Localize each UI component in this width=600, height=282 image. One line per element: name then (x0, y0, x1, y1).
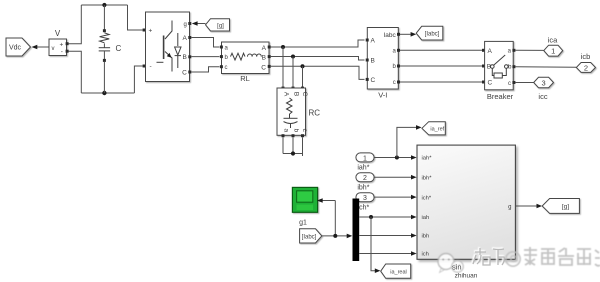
svg-text:ica: ica (548, 35, 558, 44)
inport 1 (356, 153, 374, 162)
node tap C (301, 64, 305, 68)
svg-text:ibh: ibh (422, 234, 430, 240)
svg-text:RC: RC (309, 109, 321, 118)
diode symbol inside bridge (175, 33, 181, 68)
wire subsystem g to tag [g] (516, 204, 542, 209)
svg-text:V-I: V-I (378, 91, 387, 100)
port a of Breaker (512, 49, 515, 52)
wire demux out1 to subsystem iah (359, 215, 416, 220)
switch symbol inside breaker (491, 55, 509, 78)
svg-text:iah*: iah* (422, 156, 433, 162)
svg-text:Breaker: Breaker (487, 92, 514, 101)
svg-text:ich: ich (422, 252, 429, 258)
scope g1 (292, 187, 317, 212)
port a of RL (220, 46, 223, 49)
svg-text:2: 2 (363, 175, 367, 182)
wire star point (283, 153, 303, 155)
port A of Breaker (482, 49, 485, 52)
svg-text:-: - (61, 49, 63, 56)
svg-text:c: c (393, 80, 396, 86)
port B of RL (268, 55, 271, 58)
watermark wechat logo (438, 254, 463, 273)
wire inport2 to subsystem ibh* (374, 175, 416, 180)
svg-text:C: C (116, 44, 122, 53)
wire bottom rail to bridge - (134, 66, 142, 93)
port b of Breaker (512, 65, 515, 68)
wire tap B down to RC (292, 57, 294, 88)
outport 3 (534, 77, 554, 87)
capacitor C branch (99, 5, 122, 93)
svg-text:1: 1 (551, 47, 555, 56)
wire top rail to bridge + (128, 5, 143, 30)
wire from tag [g] to bridge g (192, 21, 206, 26)
wire demux out2 to subsystem ibh (359, 233, 416, 238)
svg-text:A: A (283, 92, 290, 97)
port - of bridge (143, 65, 146, 68)
svg-text:V: V (55, 29, 61, 38)
svg-text:g1: g1 (299, 220, 307, 227)
resistor symbol inside RC (287, 98, 293, 114)
from tag [Iabc] bottom (300, 229, 322, 243)
goto tag ia_ref (422, 122, 445, 135)
V-I measurement block (367, 28, 398, 100)
wire bridge C to RL c (191, 67, 219, 72)
port b of V-I (397, 65, 400, 68)
port + of bridge (143, 29, 146, 32)
svg-text:RL: RL (240, 74, 250, 83)
wire inport1 to subsystem iah* (374, 155, 416, 160)
svg-text:-: - (150, 63, 152, 70)
svg-text:C: C (301, 92, 308, 97)
svg-text:A: A (371, 37, 376, 44)
wire Breaker b to outport 2 (515, 66, 576, 69)
node tap B (291, 55, 295, 59)
port Iabc of V-I (397, 33, 400, 36)
wire V+ to top rail (69, 5, 82, 44)
port A of RL (268, 46, 271, 49)
port B of V-I (366, 59, 369, 62)
svg-text:[Iabc]: [Iabc] (425, 32, 440, 38)
wire bridge A to RL a (191, 38, 219, 48)
goto tag [Iabc] top (416, 26, 443, 40)
port C of V-I (366, 78, 369, 81)
svg-text:b: b (292, 128, 299, 132)
svg-text:A: A (262, 45, 267, 52)
svg-text:sin: sin (452, 263, 462, 272)
wire RL C to V-I C (271, 66, 365, 79)
wire demux out3 to subsystem ich (359, 251, 416, 256)
watermark at sign (506, 252, 520, 266)
inport 3 (356, 193, 374, 202)
svg-text:Iabc: Iabc (384, 32, 397, 39)
svg-text:c: c (225, 65, 228, 71)
port + of V (66, 42, 69, 45)
node branch ia_ref (395, 156, 399, 160)
svg-text:2: 2 (584, 63, 588, 72)
port A of RC (282, 87, 285, 90)
svg-text:[g]: [g] (562, 204, 569, 211)
port A of V-I (366, 39, 369, 42)
wire tap A down to RC (282, 47, 284, 88)
svg-text:a: a (283, 128, 290, 132)
svg-text:ia_ref: ia_ref (430, 127, 444, 133)
svg-text:+: + (149, 28, 153, 35)
wire inport3 to subsystem ich* (374, 195, 416, 200)
wire Breaker a to outport 1 (515, 49, 543, 51)
port B of bridge (188, 55, 191, 58)
capacitor symbol inside RC (284, 114, 298, 128)
svg-text:B: B (371, 58, 375, 65)
svg-text:icb: icb (581, 52, 591, 61)
svg-text:B: B (292, 92, 299, 96)
goto tag ia_real (381, 264, 411, 278)
node tap A (281, 45, 285, 49)
svg-text:+: + (60, 42, 64, 49)
voltage measurement V (49, 29, 67, 56)
port c of Breaker (512, 81, 515, 84)
svg-text:B: B (262, 54, 266, 61)
port c of V-I (397, 81, 400, 84)
port B of Breaker (482, 65, 485, 68)
svg-text:c: c (508, 81, 511, 87)
subsystem zhihuan (417, 145, 515, 259)
wire V to Vdc (32, 45, 50, 50)
wire [Iabc] to demux (322, 234, 353, 239)
wire bridge B to RL b (191, 56, 219, 58)
port a of V-I (397, 49, 400, 52)
port - of V (66, 50, 69, 53)
demux (353, 199, 360, 262)
outport 2 (576, 63, 595, 73)
wire Breaker c to outport 3 (515, 82, 533, 84)
inductor symbol inside RL (248, 54, 262, 57)
port B of RC (292, 87, 295, 90)
svg-text:ia_real: ia_real (390, 269, 407, 275)
port g of bridge (188, 22, 191, 25)
watermark glyphs zhihu (472, 247, 503, 264)
svg-text:g: g (183, 22, 186, 28)
svg-text:C: C (182, 69, 187, 76)
svg-text:ich*: ich* (358, 205, 370, 212)
svg-text:iah*: iah* (357, 165, 369, 172)
node branch ia_real (369, 215, 373, 219)
svg-text:g: g (508, 204, 511, 210)
port b of RC (292, 134, 295, 137)
node bottom rail junction (102, 91, 106, 95)
port c of RL (220, 65, 223, 68)
svg-text:A: A (488, 48, 493, 55)
wire to scope g1 (317, 198, 335, 236)
svg-text:[g]: [g] (217, 23, 224, 29)
wire V- to bottom rail (69, 51, 82, 93)
node star junction (291, 151, 295, 155)
svg-text:C: C (371, 77, 376, 84)
port C of Breaker (482, 81, 485, 84)
wire RL B to V-I B (271, 57, 365, 61)
wire tap C down to RC (302, 66, 304, 87)
wire RC c down (302, 137, 304, 156)
svg-text:1: 1 (363, 155, 367, 162)
svg-text:zhihuan: zhihuan (455, 272, 478, 279)
svg-text:C: C (261, 64, 266, 71)
port C of bridge (188, 71, 191, 74)
outport 1 (544, 45, 563, 56)
svg-text:Vdc: Vdc (9, 45, 22, 52)
inport 2 (356, 173, 374, 182)
goto tag Vdc (6, 38, 31, 56)
breaker block (485, 41, 514, 101)
wire RC b down (292, 137, 294, 153)
svg-text:iah: iah (422, 215, 430, 221)
svg-text:v: v (52, 46, 55, 52)
svg-text:ich*: ich* (422, 195, 432, 201)
port C of RC (301, 87, 304, 90)
resistor symbol inside RL (231, 53, 246, 60)
wire branch down to ia_real (371, 217, 380, 273)
wire RL A to V-I A (271, 40, 365, 47)
wire Iabc to goto tag (400, 32, 416, 37)
wire RC a down (282, 137, 284, 153)
port A of bridge (188, 36, 191, 39)
port c of RC (301, 134, 304, 137)
wire V-I a to Breaker A (400, 49, 482, 51)
svg-text:icc: icc (538, 92, 547, 101)
port C of RL (268, 65, 271, 68)
node top rail junction (102, 3, 106, 7)
svg-text:B: B (182, 54, 186, 61)
universal bridge (IGBT inverter) (146, 12, 190, 82)
svg-text:ibh*: ibh* (357, 185, 369, 192)
svg-text:3: 3 (363, 195, 367, 202)
three-phase series branch RC (277, 88, 320, 135)
wire V-I c to Breaker C (400, 81, 482, 83)
goto tag [g] bottom right (542, 199, 579, 214)
port b of RL (220, 55, 223, 58)
node scope branch (333, 234, 337, 238)
wire bottom DC rail (81, 92, 134, 94)
port a of RC (282, 134, 285, 137)
wire V-I b to Breaker B (400, 65, 482, 67)
watermark glyphs handle (524, 247, 600, 266)
wire branch up to ia_ref (397, 125, 422, 157)
wire top DC rail (81, 4, 127, 6)
svg-text:3: 3 (542, 79, 546, 88)
svg-text:ibh*: ibh* (422, 175, 433, 181)
svg-text:A: A (182, 35, 187, 42)
from tag [g] top (206, 19, 230, 31)
IGBT symbol inside bridge (157, 21, 173, 72)
svg-text:C: C (488, 80, 493, 87)
svg-text:[Iabc]: [Iabc] (302, 234, 317, 240)
three-phase series branch RL (222, 42, 270, 83)
